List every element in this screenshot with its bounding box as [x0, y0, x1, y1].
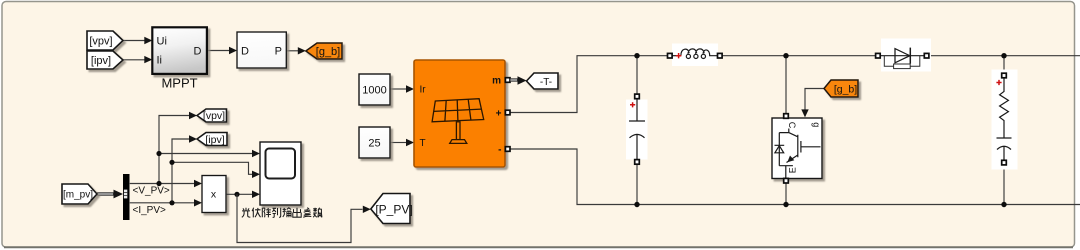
inductor coil: [672, 49, 718, 59]
PV port minus: [505, 147, 510, 152]
load port top: [1002, 73, 1007, 78]
bus wire m_pv to bus selector: [97, 192, 114, 195]
constant 25: [359, 127, 390, 158]
From tag [m_pv]: [62, 184, 97, 204]
IGBT block: [772, 118, 822, 179]
svg-text:Ii: Ii: [157, 55, 163, 67]
capacitor C branch background: [626, 100, 648, 160]
svg-text:x: x: [211, 189, 217, 201]
wire product to scope input3: [226, 193, 252, 195]
IGBT port bottom: [784, 178, 789, 183]
diode D branch background: [881, 39, 931, 72]
product block x: [202, 176, 226, 213]
load red plus: [996, 80, 1001, 85]
junction top IGBT: [783, 53, 788, 58]
svg-text:25: 25: [368, 137, 380, 149]
Goto tag -T-: [527, 73, 559, 89]
scope screen: [266, 149, 296, 179]
junction product output: [234, 192, 239, 197]
svg-text:E: E: [788, 167, 798, 173]
constant 1000: [359, 74, 390, 105]
PV port plus: [505, 110, 510, 115]
wire 1000 to Ir: [390, 88, 406, 90]
scope block: [260, 142, 301, 205]
wire I_PV to scope input2: [172, 162, 252, 174]
wire IGBT branch: [785, 56, 787, 205]
Goto tag [vpv]: [197, 109, 227, 122]
capacitor port bottom: [635, 160, 640, 165]
junction V_PV scope branch: [156, 151, 161, 156]
junction I_PV: [169, 200, 174, 205]
solar panel icon: [432, 99, 484, 144]
junction bottom load: [1001, 202, 1006, 207]
wire 25 to T: [390, 142, 406, 144]
svg-text:m: m: [492, 76, 501, 87]
capacitor symbol: [629, 99, 645, 160]
IGBT port top: [784, 114, 789, 119]
From tag [vpv]: [87, 31, 123, 50]
PV array block: [414, 60, 505, 167]
svg-text:[g_b]: [g_b]: [316, 46, 340, 58]
svg-text:D: D: [241, 46, 249, 58]
svg-text:-: -: [498, 145, 501, 156]
diode symbol: [880, 48, 925, 69]
svg-text:P: P: [275, 46, 282, 58]
svg-text:[ipv]: [ipv]: [91, 55, 111, 67]
wire load branch: [1003, 56, 1005, 205]
Goto tag [P_PV]: [371, 194, 410, 224]
svg-text:[P_PV]: [P_PV]: [375, 202, 412, 216]
wire V_PV up to goto vpv: [159, 116, 189, 184]
junction top load: [1001, 53, 1006, 58]
label PV array output parameters (CJK): [242, 208, 322, 218]
capacitor red plus: [630, 102, 635, 107]
svg-text:[g_b]: [g_b]: [834, 84, 857, 96]
wire g_b to IGBT gate: [805, 89, 824, 110]
svg-text:-T-: -T-: [540, 77, 552, 88]
bus wire m to -T-: [510, 78, 518, 81]
Goto tag [g_b]: [306, 43, 342, 59]
svg-text:[m_pv]: [m_pv]: [63, 190, 93, 201]
wire vpv to MPPT Ui: [123, 40, 145, 42]
wire MPPT D to subsystem: [208, 50, 230, 52]
bus selector: [123, 174, 130, 220]
subsystem MPPT: [152, 27, 207, 74]
svg-text:D: D: [194, 46, 202, 58]
Goto tag [ipv]: [197, 133, 227, 146]
wire ipv to MPPT Ii: [123, 59, 145, 61]
svg-text:C: C: [787, 122, 797, 129]
svg-text:MPPT: MPPT: [161, 76, 197, 91]
junction bottom IGBT: [783, 202, 788, 207]
svg-text:g: g: [812, 122, 822, 127]
capacitor port top: [635, 94, 640, 99]
svg-text:<I_PV>: <I_PV>: [133, 205, 167, 216]
svg-text:[vpv]: [vpv]: [203, 110, 225, 122]
subsystem D-P: [237, 32, 286, 68]
inductor red plus: [676, 53, 681, 58]
load RC branch background: [992, 70, 1018, 170]
wire V_PV to product: [130, 183, 194, 185]
svg-text:Ui: Ui: [157, 35, 167, 47]
svg-text:[vpv]: [vpv]: [89, 36, 112, 48]
wire V_PV to scope input1: [159, 153, 252, 155]
wire subsystem P to g_b: [286, 50, 298, 52]
wire PV plus to top rail: [510, 56, 1080, 113]
junction bottom capacitor: [634, 202, 639, 207]
junction I_PV scope branch: [169, 160, 174, 165]
wire product output to P_PV: [237, 194, 363, 242]
inductor port left: [668, 53, 673, 58]
junction V_PV: [156, 181, 161, 186]
PV port m: [505, 78, 510, 83]
diode port right: [924, 53, 929, 58]
From tag [g_b] gate: [824, 80, 858, 97]
wire capacitor branch: [636, 56, 638, 205]
IGBT icon: [775, 129, 821, 179]
diode port left: [876, 53, 881, 58]
canvas bottom border: [4, 246, 1073, 248]
junction top capacitor: [634, 53, 639, 58]
svg-text:[ipv]: [ipv]: [205, 134, 224, 146]
svg-text:<V_PV>: <V_PV>: [133, 185, 170, 196]
svg-text:Ir: Ir: [420, 85, 427, 96]
load resistor zigzag: [997, 78, 1012, 161]
svg-text:1000: 1000: [362, 84, 386, 96]
From tag [ipv]: [87, 51, 123, 69]
wire I_PV up to goto ipv: [172, 139, 189, 203]
wire PV minus to bottom rail: [510, 149, 1080, 205]
load port bottom: [1002, 160, 1007, 165]
svg-text:T: T: [420, 138, 426, 149]
svg-text:+: +: [496, 108, 502, 119]
inductor port right: [718, 53, 723, 58]
wire I_PV to product: [130, 202, 194, 204]
inductor L branch background: [672, 44, 718, 67]
